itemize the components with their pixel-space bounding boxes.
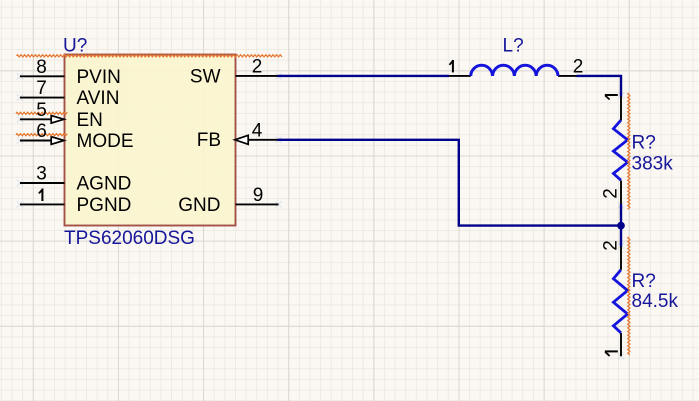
- svg-text:AGND: AGND: [77, 174, 132, 195]
- svg-text:4: 4: [252, 120, 263, 141]
- svg-text:FB: FB: [197, 130, 221, 151]
- svg-text:AVIN: AVIN: [77, 88, 120, 109]
- svg-text:2: 2: [600, 188, 621, 199]
- svg-text:EN: EN: [77, 110, 103, 131]
- svg-text:GND: GND: [178, 195, 220, 216]
- svg-text:383k: 383k: [632, 153, 674, 174]
- svg-text:TPS62060DSG: TPS62060DSG: [64, 228, 195, 249]
- svg-text:3: 3: [36, 164, 47, 185]
- svg-text:MODE: MODE: [77, 131, 134, 152]
- svg-text:6: 6: [36, 121, 47, 142]
- svg-text:SW: SW: [190, 67, 221, 88]
- svg-text:2: 2: [600, 240, 621, 251]
- svg-text:PGND: PGND: [77, 195, 132, 216]
- svg-text:2: 2: [252, 56, 263, 77]
- svg-text:PVIN: PVIN: [77, 67, 121, 88]
- svg-text:7: 7: [36, 78, 47, 99]
- svg-text:84.5k: 84.5k: [632, 291, 679, 312]
- svg-text:5: 5: [36, 100, 47, 121]
- svg-text:2: 2: [573, 56, 584, 77]
- svg-text:8: 8: [36, 57, 47, 78]
- svg-text:R?: R?: [632, 133, 656, 154]
- svg-text:L?: L?: [503, 35, 524, 56]
- svg-text:U?: U?: [63, 35, 87, 56]
- svg-text:9: 9: [253, 185, 264, 206]
- svg-text:R?: R?: [632, 271, 656, 292]
